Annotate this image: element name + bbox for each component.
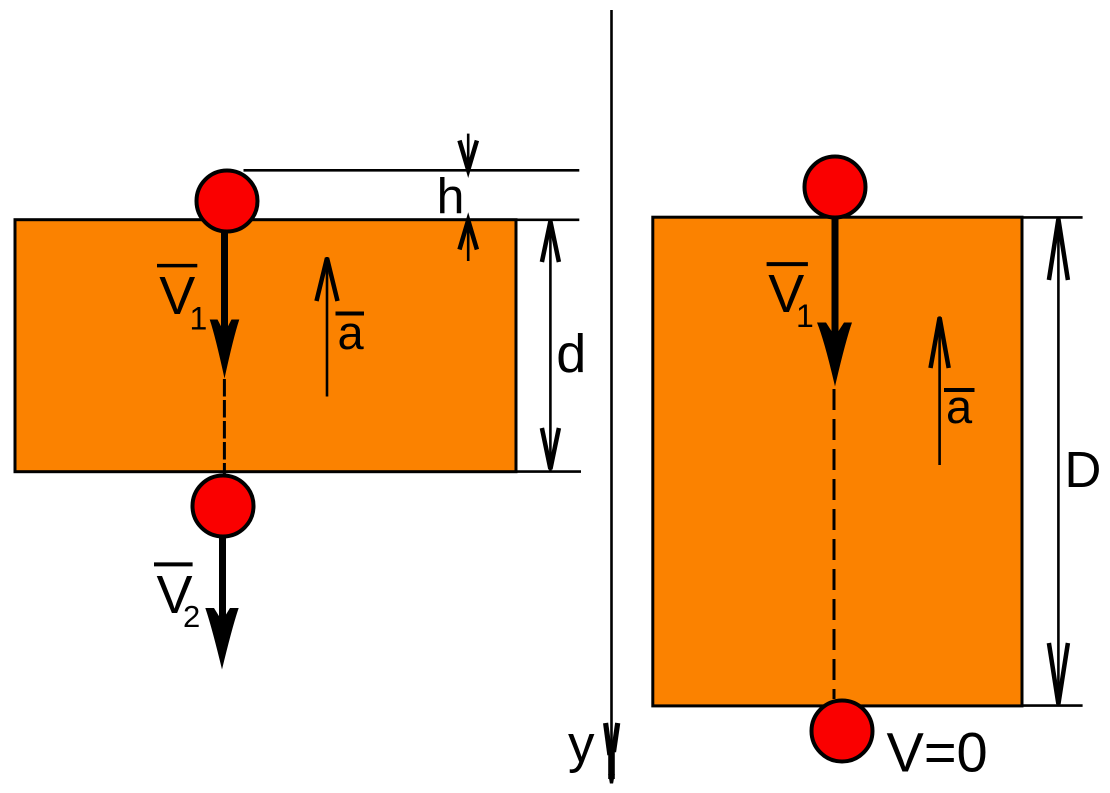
h dimension upper arrow (points down) (460, 134, 477, 171)
h dimension lower arrow (points up) (460, 220, 477, 261)
svg-text:y: y (568, 715, 595, 774)
label y (568, 715, 595, 774)
label V1 right (overbar + V + subscript 1) (767, 264, 814, 334)
svg-text:1: 1 (796, 298, 814, 334)
label D (1065, 441, 1102, 498)
left V1 velocity arrow (210, 231, 240, 379)
V2 velocity arrow (205, 536, 238, 670)
label h (437, 169, 465, 225)
label a-bar left (336, 306, 365, 359)
right slab top edge extension line (1024, 216, 1083, 219)
svg-text:1: 1 (190, 301, 208, 337)
D dimension line with arrows (1049, 217, 1068, 705)
left dashed trajectory line (223, 379, 226, 474)
svg-text:2: 2 (183, 599, 200, 634)
svg-text:a: a (946, 380, 973, 433)
y axis line (606, 10, 618, 784)
right V1 velocity arrow (817, 218, 852, 387)
right slab block (653, 217, 1022, 706)
right bottom ball (812, 701, 873, 762)
d dimension line with arrows (542, 220, 559, 471)
label V1 left (overbar + V + subscript 1) (157, 266, 207, 337)
svg-text:h: h (437, 169, 465, 225)
left slab block (15, 220, 516, 472)
h dimension top reference line (244, 169, 580, 172)
label d (556, 324, 586, 384)
right dashed trajectory line (833, 389, 836, 699)
left bottom ball (193, 476, 254, 537)
left slab bottom edge extension line (516, 470, 581, 473)
svg-text:D: D (1065, 441, 1102, 498)
left slab top edge extension line (516, 219, 579, 222)
label V2 (overbar + V + subscript 2) (154, 564, 200, 634)
right top ball (805, 157, 866, 218)
left acceleration arrow a (317, 257, 338, 397)
right slab bottom edge extension line (1024, 704, 1083, 707)
svg-text:d: d (556, 324, 586, 384)
right acceleration arrow a (931, 316, 949, 465)
svg-text:V=0: V=0 (887, 721, 988, 784)
left top ball (197, 171, 258, 232)
label a-bar right (944, 380, 975, 433)
svg-text:a: a (338, 306, 365, 359)
label V=0 (887, 721, 988, 784)
